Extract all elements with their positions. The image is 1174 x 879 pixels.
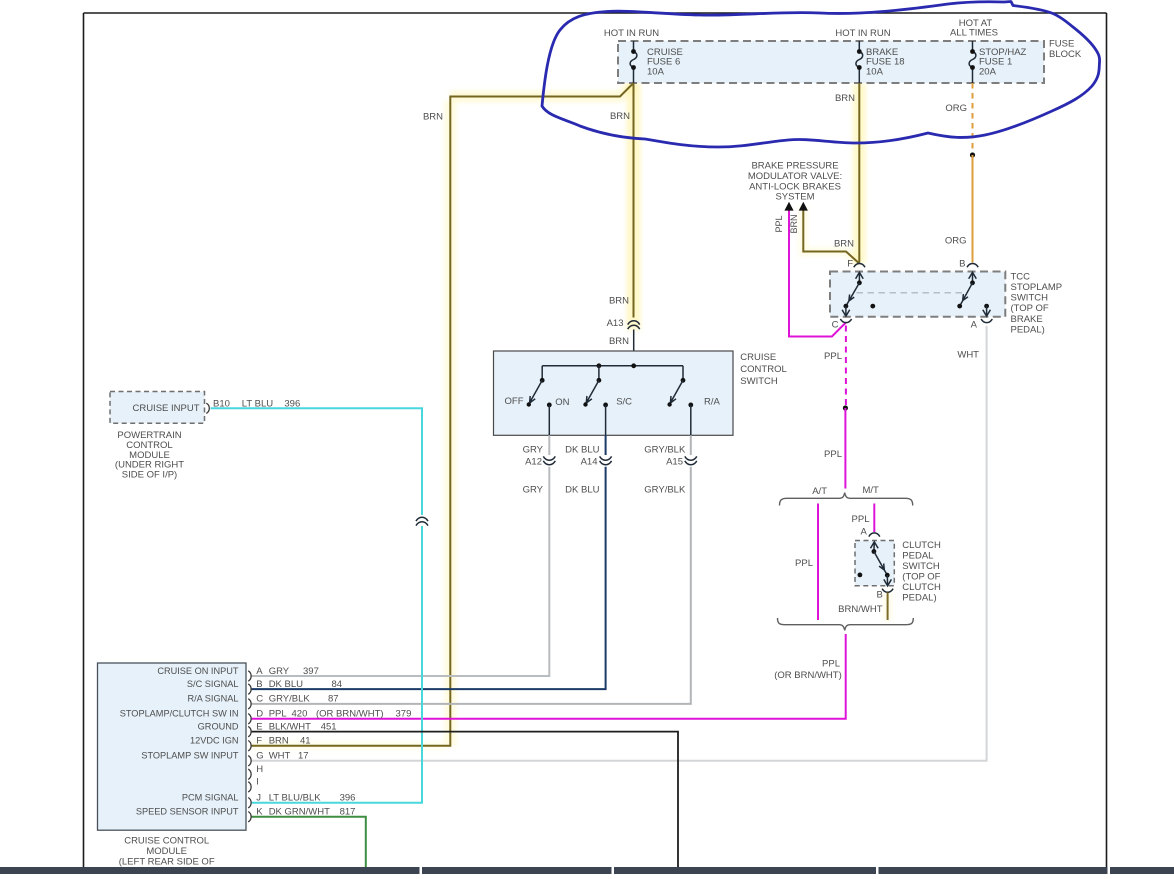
- svg-text:PPL: PPL: [774, 215, 784, 232]
- svg-text:10A: 10A: [647, 66, 665, 77]
- wire DK BLU stub below switch box: [605, 435, 607, 455]
- clutch switch arm: [874, 552, 887, 576]
- highlighter mark over BRN/WHT clutch wire: [884, 592, 892, 621]
- svg-text:(TOP OF: (TOP OF: [902, 572, 940, 583]
- diagram frame top edge: [84, 12, 1107, 14]
- OFF/ON switch arm with arrowhead: [529, 380, 542, 404]
- svg-text:GRY: GRY: [523, 484, 544, 495]
- cruise switch internal bus: [542, 365, 683, 367]
- svg-text:F: F: [847, 259, 853, 270]
- svg-text:ORG: ORG: [945, 103, 967, 114]
- svg-text:ORG: ORG: [945, 236, 967, 247]
- svg-text:TCC: TCC: [1011, 271, 1031, 282]
- svg-text:DK BLU: DK BLU: [565, 444, 599, 455]
- wire BRN black segment from A13 into cruise control switch: [633, 330, 635, 366]
- highlighter mark over BRN branch to modulator valve: [803, 207, 859, 264]
- svg-text:BRN: BRN: [269, 736, 289, 747]
- bottom bar cell gap 4: [1108, 867, 1111, 874]
- svg-text:A/T: A/T: [812, 486, 827, 497]
- svg-text:PEDAL): PEDAL): [902, 593, 936, 604]
- brace A/T - M/T (top): [780, 493, 913, 506]
- svg-text:451: 451: [321, 721, 337, 732]
- R/A contact wire to box edge: [690, 405, 692, 435]
- svg-text:A12: A12: [525, 456, 542, 467]
- svg-text:CLUTCH: CLUTCH: [902, 582, 941, 593]
- svg-text:SWITCH: SWITCH: [1011, 293, 1049, 304]
- wire GRY stub below switch box: [548, 435, 550, 455]
- svg-text:GRY/BLK: GRY/BLK: [269, 694, 311, 705]
- wire BRN from brake fuse to TCC pin F: [858, 83, 860, 263]
- module pin B connector arc: [248, 684, 251, 694]
- svg-text:10A: 10A: [866, 66, 884, 77]
- svg-text:A14: A14: [581, 456, 598, 467]
- bottom table header bar: [0, 867, 1174, 874]
- svg-text:12VDC IGN: 12VDC IGN: [190, 736, 239, 746]
- svg-text:K: K: [256, 807, 263, 818]
- svg-text:17: 17: [298, 751, 309, 762]
- svg-text:BRAKE PRESSURE: BRAKE PRESSURE: [751, 161, 838, 172]
- label CRUISE CONTROL MODULE (LEFT REAR SIDE OF: [119, 835, 215, 867]
- pin label B10 / wire labels LT BLU 396: [213, 398, 300, 409]
- OFF/ON switch pivot dot: [540, 378, 545, 383]
- wire GRY to module row A: [252, 467, 550, 676]
- bus junction dot (S/C branch): [597, 363, 602, 368]
- svg-text:ON: ON: [555, 397, 569, 408]
- module pin G connector arc: [248, 756, 251, 766]
- TCC left switch (F-C): stem and up arrow: [856, 272, 864, 283]
- clutch switch pivot dot: [872, 549, 877, 554]
- clutch switch down arrow to pin B: [884, 575, 892, 586]
- TCC pin F connector arc: [854, 264, 865, 268]
- svg-text:GRY: GRY: [269, 666, 290, 677]
- wire PPL to brake pressure modulator valve: [789, 210, 846, 337]
- module pin E connector arc: [248, 726, 251, 736]
- svg-text:GRY/BLK: GRY/BLK: [644, 484, 686, 495]
- svg-text:A: A: [256, 666, 263, 677]
- svg-text:BRN: BRN: [789, 214, 799, 233]
- value label STOP/HAZ FUSE 1 20A: [979, 47, 1027, 77]
- svg-text:D: D: [256, 709, 263, 720]
- svg-text:STOPLAMP/CLUTCH SW IN: STOPLAMP/CLUTCH SW IN: [120, 709, 239, 719]
- svg-text:A13: A13: [607, 318, 624, 329]
- diagram frame right edge: [1106, 13, 1108, 867]
- svg-text:A: A: [971, 320, 978, 331]
- svg-text:HOT IN RUN: HOT IN RUN: [835, 28, 890, 39]
- svg-text:CRUISE INPUT: CRUISE INPUT: [132, 403, 199, 414]
- svg-text:(OR BRN/WHT): (OR BRN/WHT): [316, 709, 384, 720]
- highlighter mark over BRN row F horizontal: [251, 741, 446, 750]
- svg-text:SIDE OF I/P): SIDE OF I/P): [122, 470, 177, 481]
- svg-text:CRUISE: CRUISE: [740, 352, 776, 363]
- label POWERTRAIN CONTROL MODULE (UNDER RIGHT SIDE OF I/P): [115, 430, 184, 481]
- label BRAKE PRESSURE MODULATOR VALVE: ANTI-LOCK BRAKES SYSTEM: [748, 161, 842, 203]
- bus junction dot (A13 feed): [631, 363, 636, 368]
- svg-text:BRN: BRN: [834, 238, 854, 249]
- wire BRN/WHT from clutch pin B: [887, 593, 889, 621]
- wire DK GRN/WHT from module row K down to bottom: [252, 817, 366, 867]
- R/A arm end dot: [667, 402, 671, 406]
- S/C arm end dot: [583, 402, 587, 406]
- bottom bar cell gap 3: [876, 867, 879, 874]
- highlighter mark over BRN wire from cruise fuse to A13: [627, 83, 641, 330]
- fuse F1 terminal dots: [970, 49, 975, 54]
- TCC pin A connector arc: [981, 319, 992, 323]
- svg-text:CRUISE CONTROL: CRUISE CONTROL: [124, 835, 209, 846]
- wire LT BLU lower segment to module row J: [252, 526, 423, 803]
- svg-text:PPL: PPL: [822, 659, 840, 670]
- TCC right switch (B-A): stem and up arrow: [969, 272, 977, 283]
- TCC right switch pivot dot: [970, 280, 975, 285]
- svg-text:SWITCH: SWITCH: [902, 561, 940, 572]
- svg-text:WHT: WHT: [957, 350, 979, 361]
- wire WHT from TCC pin A to module row G: [252, 326, 987, 761]
- brace bottom (joins A/T and M/T): [778, 618, 914, 630]
- module pin C connector arc: [248, 699, 251, 709]
- TCC right switch lower dot: [957, 304, 962, 309]
- svg-text:PPL: PPL: [269, 709, 287, 720]
- svg-text:DK GRN/WHT: DK GRN/WHT: [269, 807, 330, 818]
- svg-text:B: B: [256, 679, 262, 690]
- cruise control module box: [98, 663, 247, 830]
- wire GRY/BLK to module row C: [252, 467, 691, 704]
- svg-text:SWITCH: SWITCH: [740, 376, 778, 387]
- svg-text:STOPLAMP SW INPUT: STOPLAMP SW INPUT: [141, 751, 239, 761]
- ON contact dot: [547, 403, 552, 408]
- PCM pin B10 connector arc: [206, 403, 209, 413]
- svg-text:I: I: [256, 777, 259, 788]
- module pin H connector arc: [248, 769, 251, 779]
- svg-text:BRAKE: BRAKE: [1011, 314, 1043, 325]
- svg-text:M/T: M/T: [863, 485, 880, 496]
- svg-text:GROUND: GROUND: [198, 721, 239, 731]
- svg-text:817: 817: [340, 807, 356, 818]
- svg-text:PEDAL): PEDAL): [1011, 324, 1045, 335]
- S/C switch: stem from bus: [598, 366, 600, 381]
- svg-text:B: B: [959, 259, 965, 270]
- wire GRY/BLK stub below switch box: [690, 435, 692, 455]
- svg-text:PPL: PPL: [852, 514, 870, 525]
- junction dot on ORG wire: [970, 152, 975, 157]
- svg-text:CRUISE ON INPUT: CRUISE ON INPUT: [157, 666, 239, 676]
- svg-text:BRN: BRN: [423, 111, 443, 122]
- svg-text:E: E: [256, 721, 262, 732]
- svg-text:(OR BRN/WHT): (OR BRN/WHT): [774, 670, 842, 681]
- svg-text:GRY: GRY: [523, 444, 544, 455]
- svg-text:(TOP OF: (TOP OF: [1011, 303, 1049, 314]
- svg-text:BRN: BRN: [609, 296, 629, 307]
- S/C switch arm with arrowhead: [586, 380, 599, 404]
- label FUSE BLOCK: [1049, 39, 1082, 61]
- svg-text:S/C SIGNAL: S/C SIGNAL: [187, 679, 239, 689]
- arrow to modulator valve (PPL): [784, 202, 793, 211]
- TCC pin B connector arc: [967, 264, 978, 268]
- value label BRAKE FUSE 18 10A: [866, 47, 905, 77]
- module pin A connector arc: [248, 671, 251, 681]
- wire PPL M/T branch to clutch pedal switch pin A: [873, 504, 875, 533]
- svg-text:J: J: [256, 793, 261, 804]
- fuse F18 terminal dots: [857, 49, 862, 54]
- connector A15 double arc: [685, 456, 697, 464]
- S/C contact wire to box edge: [605, 405, 607, 435]
- clutch switch pin A connector arc: [869, 533, 880, 537]
- TCC left switch arm: [846, 283, 860, 306]
- wire ORG solid down to TCC pin B: [972, 155, 974, 263]
- label CLUTCH PEDAL SWITCH (TOP OF CLUTCH PEDAL): [902, 540, 941, 604]
- TCC pin A down arrow: [983, 306, 991, 316]
- highlighter mark over BRN branch left vertical: [445, 101, 456, 746]
- svg-text:FUSE: FUSE: [1049, 39, 1074, 50]
- TCC pin C connector arc: [840, 319, 851, 323]
- connector A12 double arc: [543, 456, 555, 464]
- diagram frame left edge: [83, 13, 85, 867]
- hand-drawn blue pen loop around fuse block: [542, 2, 1100, 148]
- svg-text:HOT IN RUN: HOT IN RUN: [604, 28, 659, 39]
- fuse block box: [618, 41, 1044, 83]
- OFF contact dot: [527, 402, 531, 406]
- svg-text:S/C: S/C: [616, 397, 632, 408]
- module pin J connector arc: [248, 798, 251, 808]
- fuse F18 BRAKE (symbol): [856, 41, 863, 83]
- svg-text:CONTROL: CONTROL: [740, 364, 786, 375]
- module pin I connector arc: [248, 782, 251, 792]
- svg-text:R/A: R/A: [704, 397, 721, 408]
- TCC left switch down arrow to pin C: [842, 306, 850, 316]
- wire PPL dashed from TCC pin C: [845, 326, 847, 406]
- svg-text:PEDAL: PEDAL: [902, 551, 933, 562]
- svg-text:H: H: [256, 764, 263, 775]
- clutch switch contact dot (lower left): [858, 573, 863, 578]
- svg-text:PPL: PPL: [824, 449, 842, 460]
- value label CRUISE FUSE 6 10A: [647, 47, 683, 77]
- label PPL (OR BRN/WHT) below brace: [774, 659, 842, 681]
- powertrain control module CRUISE INPUT box: [110, 392, 205, 424]
- svg-text:PCM SIGNAL: PCM SIGNAL: [182, 793, 239, 803]
- clutch pedal switch box: [855, 541, 894, 586]
- TCC right switch arm: [960, 283, 973, 306]
- connector A13 double arc: [628, 321, 640, 329]
- highlighter mark over BRN wire from brake fuse: [853, 83, 866, 263]
- svg-text:84: 84: [332, 679, 343, 690]
- svg-text:B: B: [877, 590, 883, 601]
- svg-text:BRN: BRN: [835, 93, 855, 104]
- svg-text:F: F: [256, 736, 262, 747]
- bottom bar cell gap 2: [612, 867, 615, 874]
- svg-text:41: 41: [300, 736, 311, 747]
- OFF/ON switch: drop from bus: [541, 366, 543, 381]
- junction dot on PPL wire: [843, 405, 848, 410]
- wire BRN branch from pin F to brake pressure modulator valve: [803, 210, 859, 264]
- arrow to modulator valve (BRN): [799, 202, 808, 211]
- TCC pin A contact dot: [984, 304, 989, 309]
- R/A switch: drop from bus: [682, 366, 684, 381]
- wire DK BLU to module row B: [252, 467, 606, 689]
- svg-text:CLUTCH: CLUTCH: [902, 540, 941, 551]
- svg-text:396: 396: [340, 793, 356, 804]
- R/A contact dot: [688, 403, 693, 408]
- clutch switch stem and up arrow: [871, 542, 879, 552]
- fuse F1 STOP/HAZ (symbol): [969, 41, 976, 83]
- S/C contact dot: [603, 403, 608, 408]
- svg-text:A: A: [860, 527, 867, 538]
- label HOT AT ALL TIMES: [950, 18, 998, 39]
- TCC left switch lower dot: [844, 304, 849, 309]
- TCC centre contact dot: [870, 304, 875, 309]
- svg-text:DK BLU: DK BLU: [565, 484, 599, 495]
- svg-text:G: G: [256, 751, 263, 762]
- TCC left switch pivot dot: [857, 280, 862, 285]
- wire LT BLU upper segment from PCM: [211, 408, 423, 515]
- label CRUISE CONTROL SWITCH: [740, 352, 786, 387]
- svg-text:OFF: OFF: [505, 396, 524, 407]
- module pin D connector arc: [248, 714, 251, 724]
- svg-text:PPL: PPL: [795, 558, 813, 569]
- wire BLK/WHT from module row E down to bottom: [252, 732, 679, 867]
- connector A14 double arc: [600, 456, 612, 464]
- svg-text:BRN/WHT: BRN/WHT: [838, 604, 883, 615]
- TCC stoplamp switch box: [830, 272, 1005, 317]
- svg-text:DK BLU: DK BLU: [269, 679, 303, 690]
- wire PPL A/T branch: [817, 504, 819, 621]
- svg-text:BLOCK: BLOCK: [1049, 49, 1082, 60]
- svg-text:420: 420: [292, 709, 308, 720]
- svg-text:87: 87: [328, 694, 339, 705]
- svg-text:STOPLAMP: STOPLAMP: [1011, 282, 1063, 293]
- svg-text:BRN: BRN: [610, 111, 630, 122]
- wire ORG dashed from stop/haz fuse: [972, 83, 974, 152]
- svg-text:397: 397: [303, 666, 319, 677]
- svg-text:C: C: [832, 320, 839, 331]
- svg-text:MODULE: MODULE: [146, 846, 187, 857]
- module pin K connector arc: [248, 812, 251, 822]
- svg-text:PPL: PPL: [824, 351, 842, 362]
- svg-text:20A: 20A: [979, 66, 997, 77]
- svg-text:R/A SIGNAL: R/A SIGNAL: [187, 694, 238, 704]
- R/A switch arm with arrowhead: [670, 380, 683, 404]
- TCC internal linkage dashed line: [857, 292, 966, 294]
- fuse F6 terminal dots: [631, 49, 636, 54]
- svg-text:379: 379: [396, 709, 412, 720]
- fuse F6 CRUISE (symbol): [630, 41, 637, 83]
- svg-text:GRY/BLK: GRY/BLK: [644, 444, 686, 455]
- label TCC STOPLAMP SWITCH (TOP OF BRAKE PEDAL): [1011, 271, 1063, 335]
- wire BRN branch: fuse to 12VDC IGN row F: [252, 83, 634, 746]
- ON contact wire to box edge: [548, 405, 550, 435]
- cruise control switch box: [494, 351, 734, 435]
- svg-text:SPEED SENSOR INPUT: SPEED SENSOR INPUT: [136, 807, 239, 817]
- wire BRN from cruise fuse down to A13: [633, 83, 635, 318]
- S/C switch pivot dot: [597, 378, 602, 383]
- wire PPL (OR BRN/WHT) from brace to module row D: [252, 634, 846, 719]
- svg-text:MODULATOR VALVE:: MODULATOR VALVE:: [748, 171, 842, 182]
- connector break double arc on LT BLU wire: [416, 517, 428, 525]
- highlighter mark over BRN branch horizontal at top: [450, 83, 633, 97]
- module pin F connector arc: [248, 741, 251, 751]
- R/A switch pivot dot: [681, 378, 686, 383]
- svg-text:(LEFT REAR SIDE OF: (LEFT REAR SIDE OF: [119, 856, 215, 867]
- svg-text:BLK/WHT: BLK/WHT: [269, 721, 311, 732]
- svg-text:BRN: BRN: [609, 336, 629, 347]
- svg-text:A15: A15: [666, 456, 683, 467]
- svg-text:C: C: [256, 694, 263, 705]
- bottom bar cell gap 1: [420, 867, 423, 874]
- clutch switch arm end dot: [885, 573, 890, 578]
- clutch switch pin B connector arc: [882, 589, 893, 593]
- svg-text:LT BLU/BLK: LT BLU/BLK: [269, 793, 322, 804]
- svg-text:WHT: WHT: [269, 751, 291, 762]
- svg-text:SYSTEM: SYSTEM: [775, 192, 814, 203]
- wire PPL solid down to A/T-M/T brace: [844, 408, 846, 489]
- svg-text:ALL TIMES: ALL TIMES: [950, 28, 998, 39]
